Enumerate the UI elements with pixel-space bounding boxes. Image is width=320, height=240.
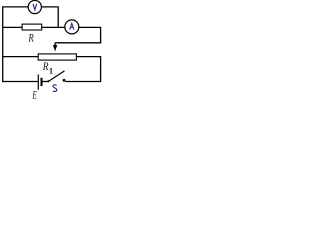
svg-text:R: R xyxy=(42,59,49,73)
svg-text:1: 1 xyxy=(49,66,53,75)
svg-text:E: E xyxy=(32,87,37,99)
svg-text:R: R xyxy=(28,31,35,45)
